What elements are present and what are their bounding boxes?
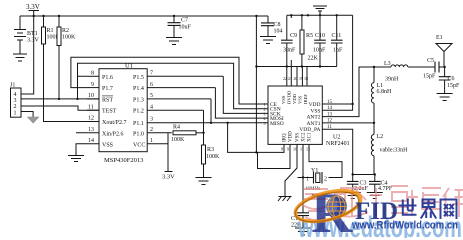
wire VSS right pin xyxy=(322,104,352,110)
svg-text:11: 11 xyxy=(88,104,94,110)
ground (C7) xyxy=(166,38,182,45)
svg-text:33nF: 33nF xyxy=(283,48,296,54)
pins NRF bottom labels xyxy=(281,131,313,152)
svg-text:9: 9 xyxy=(91,82,94,88)
svg-text:VSS: VSS xyxy=(296,133,301,142)
node VDDrail-302 xyxy=(301,65,303,67)
wire P1.3 drop to MISO line xyxy=(210,99,212,123)
svg-text:C6: C6 xyxy=(448,76,455,82)
capacitor C5 xyxy=(423,58,445,80)
connector J1 xyxy=(10,83,21,118)
svg-text:18: 18 xyxy=(304,76,308,81)
svg-text:5: 5 xyxy=(150,93,153,99)
svg-text:VSS: VSS xyxy=(298,95,303,104)
wire XC2 to crystal xyxy=(298,144,314,177)
node gnd-320 xyxy=(319,14,321,16)
pin 8 P1.6 xyxy=(87,71,113,81)
svg-text:1nF: 1nF xyxy=(333,48,343,54)
ground (C8) xyxy=(260,37,276,44)
ground (C4) xyxy=(367,193,383,199)
inductor L3 xyxy=(384,61,408,83)
svg-text:BT1: BT1 xyxy=(27,31,38,37)
node rail-C7 xyxy=(173,15,175,17)
svg-text:9: 9 xyxy=(287,147,289,152)
svg-text:ANT1: ANT1 xyxy=(306,121,320,127)
svg-text:104: 104 xyxy=(274,29,283,35)
resistor R1 xyxy=(42,16,100,122)
node VDDrail-287 xyxy=(286,65,288,67)
svg-text:L3: L3 xyxy=(384,61,391,67)
ground (battery) xyxy=(13,54,27,61)
svg-text:RST: RST xyxy=(102,97,113,103)
capacitor C7 xyxy=(168,16,192,38)
node VDD-352 xyxy=(351,103,353,105)
node antenna xyxy=(443,66,445,68)
ground (chassis, VSS NRF) xyxy=(278,197,292,202)
svg-text:4.7PF: 4.7PF xyxy=(378,186,393,192)
svg-text:Xout/P2.7: Xout/P2.7 xyxy=(102,120,127,126)
pin 6 P1.4 xyxy=(133,82,215,92)
pin 13 Xin/P2.6 xyxy=(76,127,124,137)
svg-text:IREF: IREF xyxy=(303,94,308,104)
wire J1 pin3 RST line xyxy=(21,98,99,100)
svg-text:15pF: 15pF xyxy=(447,83,460,89)
resistor R4 xyxy=(171,125,204,144)
wire ANT2 to antenna line xyxy=(322,67,391,117)
svg-text:3.3V: 3.3V xyxy=(162,174,175,181)
pin 9 P1.7 xyxy=(87,82,113,92)
svg-text:20: 20 xyxy=(294,76,298,81)
power 3.3V (VCC) xyxy=(162,172,175,181)
capacitor C1 xyxy=(291,178,309,229)
node R4-R3 xyxy=(202,132,204,134)
svg-text:19: 19 xyxy=(299,76,303,81)
wire VSS bottom diagonal xyxy=(285,144,297,196)
svg-text:VSS: VSS xyxy=(281,95,286,104)
svg-text:MISO: MISO xyxy=(270,121,284,127)
svg-text:C5: C5 xyxy=(427,58,434,64)
wire P1.5 to SCK xyxy=(223,76,262,113)
wire ANT1 xyxy=(322,122,374,124)
node ANT1-L1 xyxy=(373,122,375,124)
svg-text:1: 1 xyxy=(306,177,309,183)
wire loop77 down to RST xyxy=(77,76,79,99)
wire P1.6 loop to CSN xyxy=(78,63,263,108)
wire node up to P1.2 xyxy=(203,110,205,133)
node RST-77 xyxy=(76,98,78,100)
resistor R3 xyxy=(202,133,221,178)
svg-text:IRQ: IRQ xyxy=(283,133,288,142)
pin 14 VSS xyxy=(76,138,113,155)
capacitor C9 xyxy=(281,15,297,66)
wire gnd rail right drop xyxy=(352,15,354,104)
node rail-L2 xyxy=(374,173,376,175)
ground (C6) xyxy=(437,94,453,101)
svg-text:P1.0: P1.0 xyxy=(133,131,144,137)
node gnd-337 xyxy=(336,14,338,16)
pins NRF left labels xyxy=(264,102,284,127)
node VDDrail-320 xyxy=(319,65,321,67)
svg-text:39nH: 39nH xyxy=(385,77,399,83)
wire J1 pin4 to 3.3V stem xyxy=(21,16,34,94)
pin 12 Xout/P2.7 xyxy=(87,116,127,126)
svg-text:4: 4 xyxy=(150,104,153,110)
inductor L2 xyxy=(371,134,408,175)
svg-text:21: 21 xyxy=(288,76,292,81)
svg-text:C7: C7 xyxy=(181,18,188,24)
svg-text:C10: C10 xyxy=(315,33,325,39)
svg-text:14: 14 xyxy=(88,138,94,144)
svg-text:E1: E1 xyxy=(436,35,443,41)
svg-text:1: 1 xyxy=(14,110,17,116)
svg-text:8: 8 xyxy=(281,147,283,152)
pin 7 P1.5 xyxy=(133,71,223,81)
node VCC-VDDrail xyxy=(255,65,257,67)
wire P1.4 to MOSI xyxy=(215,88,262,119)
svg-text:C11: C11 xyxy=(332,33,342,39)
svg-text:10: 10 xyxy=(293,147,297,152)
watermark background edatop chars xyxy=(303,186,463,220)
svg-text:www.RfidWorld.com.cn: www.RfidWorld.com.cn xyxy=(351,220,458,232)
wire VCC vertical xyxy=(255,16,257,152)
wire L3 to C5 xyxy=(408,66,435,68)
wire VDD_PA down xyxy=(322,129,352,174)
node rail-C3 xyxy=(352,173,354,175)
node rail-R2 xyxy=(58,15,60,17)
svg-text:ANT2: ANT2 xyxy=(306,115,320,121)
svg-text:100K: 100K xyxy=(206,154,220,160)
svg-text:22: 22 xyxy=(283,76,287,81)
node VCC-IRQ xyxy=(255,151,257,153)
svg-text:3.3V: 3.3V xyxy=(26,3,40,11)
svg-text:L2: L2 xyxy=(377,134,384,140)
svg-text:VSS: VSS xyxy=(310,108,320,114)
svg-text:XC2: XC2 xyxy=(302,132,307,142)
node IRQ-MISO xyxy=(226,122,228,124)
svg-text:100K: 100K xyxy=(62,35,76,41)
pin 5 P1.3 xyxy=(133,93,211,103)
pin stubs NRF top xyxy=(281,67,308,105)
capacitor C6 xyxy=(439,67,460,94)
svg-text:VDD: VDD xyxy=(309,102,321,108)
wire VDD rail xyxy=(256,66,336,68)
svg-text:10nF: 10nF xyxy=(313,48,326,54)
svg-text:VDD: VDD xyxy=(289,131,294,142)
pin 3 P1.1 xyxy=(133,117,262,127)
wire 3.3V rail xyxy=(20,15,268,17)
svg-text:12: 12 xyxy=(88,116,94,122)
svg-text:MSP430F2013: MSP430F2013 xyxy=(104,157,143,164)
crystal Y1 xyxy=(305,168,327,192)
node R2-RST xyxy=(58,98,60,100)
watermark globe xyxy=(326,196,347,217)
svg-text:XC1: XC1 xyxy=(308,132,313,142)
ground (R3) xyxy=(196,178,212,185)
power 3.3V top left xyxy=(26,3,40,16)
node gnd-302 xyxy=(301,14,303,16)
ground (C1) xyxy=(295,228,311,235)
svg-text:2: 2 xyxy=(14,104,17,110)
pin 11 TEST xyxy=(87,104,117,114)
ground (top right block) xyxy=(313,6,327,15)
svg-text:vable:33nH: vable:33nH xyxy=(380,148,409,154)
svg-text:C9: C9 xyxy=(290,33,297,39)
svg-text:15pF: 15pF xyxy=(423,74,436,80)
pin 2 P1.0 xyxy=(133,127,172,137)
svg-text:R3: R3 xyxy=(207,147,214,153)
wire ground rail xyxy=(287,14,353,16)
pin stubs NRF left xyxy=(262,104,268,123)
wire J1 pin1 to ground xyxy=(21,112,33,118)
svg-text:VCC: VCC xyxy=(133,142,145,148)
node P1.3-MISO xyxy=(210,122,212,124)
capacitor C3 xyxy=(347,175,369,193)
inductor L1 xyxy=(371,67,392,135)
svg-text:13: 13 xyxy=(88,127,94,133)
svg-text:P1.2: P1.2 xyxy=(133,109,144,115)
svg-text:3: 3 xyxy=(150,117,153,123)
pins NRF right labels xyxy=(299,102,320,133)
svg-text:R2: R2 xyxy=(62,28,69,34)
wire P1.7 loop to CE xyxy=(71,57,262,104)
svg-text:P1.1: P1.1 xyxy=(133,121,144,127)
wire VDD right pin to gnd rail drop xyxy=(322,103,352,105)
watermark shijie chars xyxy=(399,199,457,220)
node XC2-C1 xyxy=(302,176,304,178)
transistor U2 NRF2401 box xyxy=(268,86,350,147)
capacitor C11 xyxy=(331,15,343,66)
svg-text:P1.6: P1.6 xyxy=(102,75,113,81)
wire XC1 over to crystal right xyxy=(309,144,342,177)
ground (arrow, J1 pin1) xyxy=(28,117,39,123)
svg-text:P1.4: P1.4 xyxy=(133,86,144,92)
antenna E1 xyxy=(436,35,452,67)
svg-text:VDD: VDD xyxy=(292,93,297,104)
pin 10 RST xyxy=(87,93,113,103)
svg-text:NRF2401: NRF2401 xyxy=(326,141,350,147)
wire J1 pin2 to TEST xyxy=(21,106,99,110)
node gnd-291 xyxy=(290,14,292,16)
capacitor C10 xyxy=(313,15,326,66)
svg-text:U2: U2 xyxy=(333,135,340,141)
svg-text:Xin/P2.6: Xin/P2.6 xyxy=(102,131,124,137)
op-amp U1 MSP430F2013 box xyxy=(99,63,147,165)
svg-text:P1.7: P1.7 xyxy=(102,86,113,92)
pin 4 P1.2 xyxy=(133,104,204,114)
wire DVDD drop xyxy=(290,15,292,66)
svg-text:R4: R4 xyxy=(173,125,180,131)
svg-text:10uF: 10uF xyxy=(179,25,192,31)
ground (VSS) xyxy=(68,156,84,162)
svg-text:100K: 100K xyxy=(171,137,185,143)
battery BT1 xyxy=(14,16,40,54)
wire bottom cap rail xyxy=(353,174,375,176)
svg-text:DVDD: DVDD xyxy=(287,90,292,104)
power 3.3V (R4) xyxy=(167,133,169,172)
svg-text:C8: C8 xyxy=(274,22,281,28)
svg-text:6.8nH: 6.8nH xyxy=(377,89,393,95)
svg-text:8: 8 xyxy=(91,71,94,77)
wire VDD bottom U xyxy=(258,144,291,168)
capacitor C4 xyxy=(369,175,393,193)
svg-text:22K: 22K xyxy=(308,56,319,62)
svg-text:R5: R5 xyxy=(306,33,313,39)
wire IRQ line xyxy=(228,123,284,153)
svg-text:VSS: VSS xyxy=(102,142,113,148)
node rail-R1 xyxy=(42,15,44,17)
svg-text:1: 1 xyxy=(150,138,153,144)
watermark logo ellipse xyxy=(292,185,364,228)
svg-text:VDD_PA: VDD_PA xyxy=(299,127,320,133)
node rail-vcc xyxy=(255,15,257,17)
ground (C3) xyxy=(345,193,361,199)
capacitor C8 xyxy=(261,16,283,37)
node L1 top xyxy=(373,66,375,68)
svg-text:10: 10 xyxy=(88,93,94,99)
svg-text:6: 6 xyxy=(150,82,153,88)
svg-text:TEST: TEST xyxy=(102,109,117,115)
svg-text:R1: R1 xyxy=(47,28,54,34)
pin 1 VCC xyxy=(133,138,168,172)
node gnd-308 xyxy=(307,14,309,16)
svg-text:P1.3: P1.3 xyxy=(133,97,144,103)
svg-text:2: 2 xyxy=(150,127,153,133)
node rail-power xyxy=(33,15,35,17)
svg-text:P1.5: P1.5 xyxy=(133,75,144,81)
svg-text:3: 3 xyxy=(14,98,17,104)
svg-text:7: 7 xyxy=(150,71,153,77)
resistor R2 xyxy=(57,16,76,99)
resistor R5 xyxy=(300,15,319,66)
